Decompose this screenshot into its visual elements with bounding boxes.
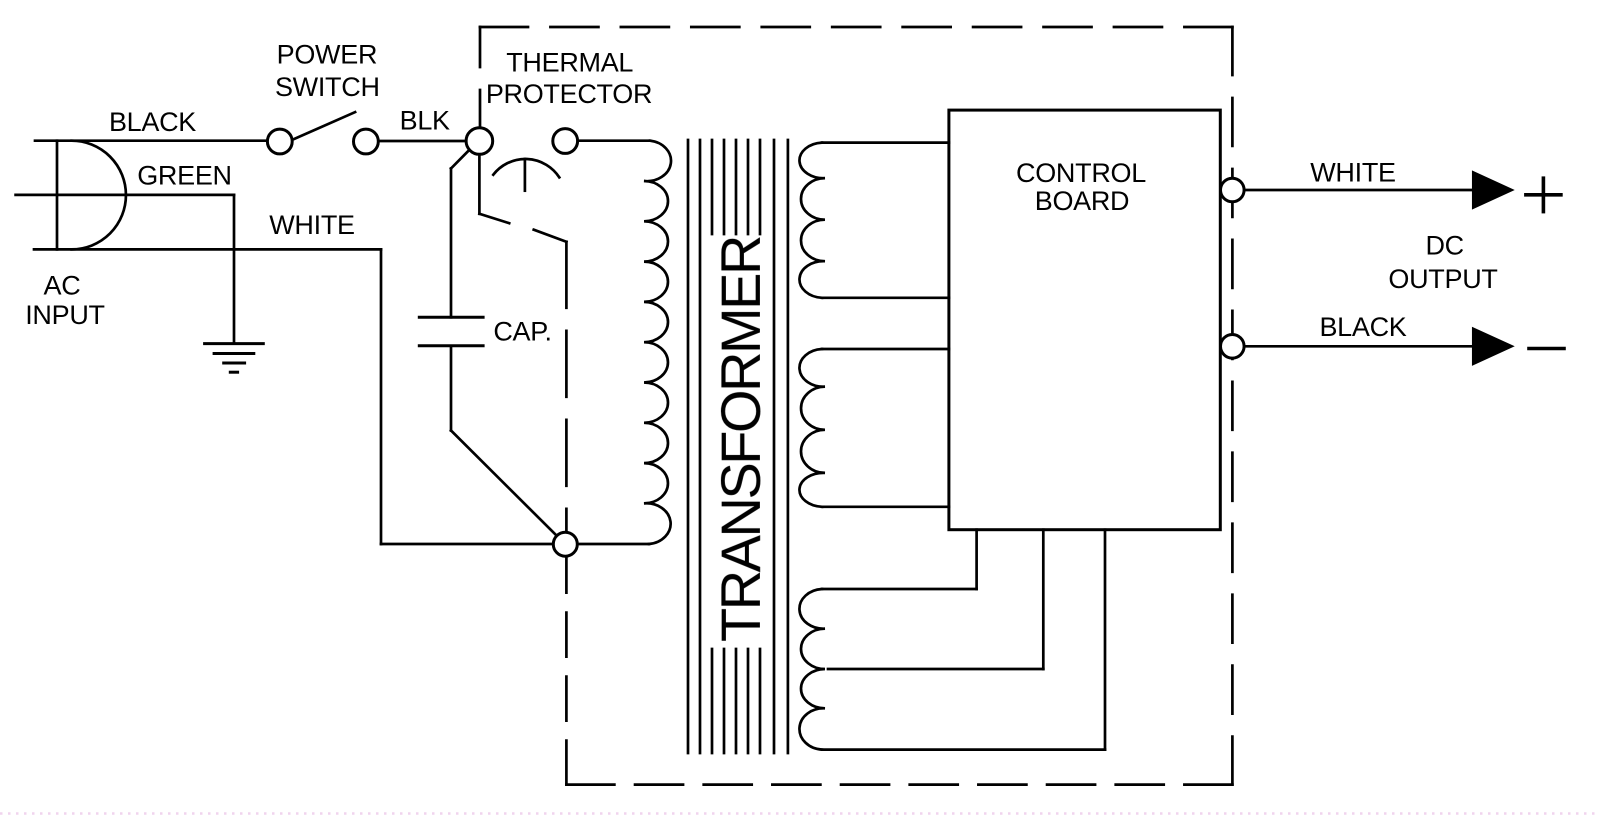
svg-text:THERMAL: THERMAL bbox=[506, 48, 633, 78]
svg-text:BLK: BLK bbox=[400, 106, 450, 136]
svg-text:PROTECTOR: PROTECTOR bbox=[486, 79, 652, 109]
svg-text:OUTPUT: OUTPUT bbox=[1388, 264, 1497, 294]
svg-text:AC: AC bbox=[44, 271, 81, 301]
svg-text:CAP.: CAP. bbox=[493, 317, 551, 347]
svg-text:BLACK: BLACK bbox=[1319, 312, 1406, 342]
svg-text:BOARD: BOARD bbox=[1035, 186, 1130, 216]
svg-text:GREEN: GREEN bbox=[137, 161, 232, 191]
svg-text:INPUT: INPUT bbox=[25, 300, 105, 330]
svg-text:CONTROL: CONTROL bbox=[1016, 158, 1146, 188]
svg-text:POWER: POWER bbox=[277, 40, 378, 70]
svg-text:WHITE: WHITE bbox=[269, 210, 355, 240]
svg-text:TRANSFORMER: TRANSFORMER bbox=[709, 237, 772, 642]
svg-text:WHITE: WHITE bbox=[1310, 157, 1396, 187]
svg-text:BLACK: BLACK bbox=[109, 107, 196, 137]
svg-text:DC: DC bbox=[1425, 231, 1463, 261]
svg-text:SWITCH: SWITCH bbox=[275, 72, 380, 102]
